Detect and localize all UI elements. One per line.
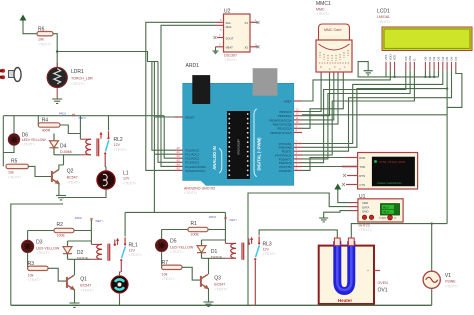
svg-text:D5: D5 xyxy=(445,56,449,60)
svg-text:OVEN: OVEN xyxy=(378,281,389,285)
svg-text:BC547: BC547 xyxy=(214,283,225,287)
svg-text:AREF: AREF xyxy=(284,100,292,104)
svg-text:TURN: TURN xyxy=(379,216,386,220)
microcontroller ATMEGA328P xyxy=(227,111,250,179)
svg-text:<TEXT>: <TEXT> xyxy=(129,253,142,257)
svg-text:Q2: Q2 xyxy=(67,169,74,175)
svg-text:ANALOG IN: ANALOG IN xyxy=(212,146,217,170)
svg-text:D5: D5 xyxy=(170,239,177,245)
svg-text:MMC Card: MMC Card xyxy=(324,28,341,32)
wire emitter RL1 driver xyxy=(74,289,76,303)
svg-text:PB0/ICP1/CLKO: PB0/ICP1/CLKO xyxy=(270,131,292,135)
wire MMC CS to PB4 xyxy=(329,72,331,75)
wire power to R6 xyxy=(23,22,37,34)
relay contact RL1 xyxy=(124,237,126,244)
svg-text:400R: 400R xyxy=(42,129,51,133)
relay contact RL3 xyxy=(258,236,260,243)
wire U1 DATA xyxy=(248,193,349,305)
svg-text:PAD2: PAD2 xyxy=(75,216,83,220)
wire LCD VEE xyxy=(394,70,396,77)
resistor R2 xyxy=(54,228,74,232)
svg-text:+: + xyxy=(367,269,369,273)
svg-text:PC5/ADC5/SCL: PC5/ADC5/SCL xyxy=(185,169,206,173)
wire emitter RL3 driver xyxy=(208,288,210,302)
svg-text:LED-YELLOW: LED-YELLOW xyxy=(36,247,60,251)
resistor R3 xyxy=(27,253,29,269)
wire 12V feed row xyxy=(125,211,225,213)
power +5V near U1 xyxy=(335,185,340,192)
resistor R6 xyxy=(37,32,53,36)
Arduino USB connector xyxy=(192,75,210,104)
svg-text:LM016L: LM016L xyxy=(377,15,390,19)
svg-text:A2: A2 xyxy=(177,154,181,158)
net label RL3 driver xyxy=(224,212,226,229)
diode D4 xyxy=(50,134,59,156)
svg-text:A5: A5 xyxy=(177,166,181,170)
wire rail RL1 driver xyxy=(28,230,54,232)
svg-text:<TEXT>: <TEXT> xyxy=(38,43,51,47)
svg-text:SDA: SDA xyxy=(226,25,232,29)
svg-text:100E: 100E xyxy=(191,233,200,237)
svg-text:Q3: Q3 xyxy=(214,275,221,281)
wire coil bottom RL1 driver xyxy=(68,258,92,260)
LDR LDR1 xyxy=(56,85,58,99)
svg-text:12V: 12V xyxy=(123,177,130,181)
wire U1 VDD xyxy=(338,191,349,203)
svg-text:D-0066: D-0066 xyxy=(60,150,72,154)
wire MMC DI to PB3 xyxy=(333,72,335,75)
wire base RL1 driver xyxy=(48,268,67,281)
svg-text:<TEXT>: <TEXT> xyxy=(67,181,80,185)
ground RL3 driver xyxy=(204,302,214,306)
svg-text:<TEXT>: <TEXT> xyxy=(123,182,136,186)
transistor Q3 xyxy=(201,274,208,288)
source V1 VSINE xyxy=(431,224,433,272)
wire MMC pin1 to PB5 xyxy=(320,72,322,75)
svg-text:<NET>: <NET> xyxy=(78,116,87,120)
svg-text:X1: X1 xyxy=(244,21,248,25)
svg-text:OV1: OV1 xyxy=(378,288,388,294)
wire base RL3 driver xyxy=(182,267,201,280)
svg-text:A3: A3 xyxy=(177,158,181,162)
svg-text:<TEXT>: <TEXT> xyxy=(170,250,183,254)
svg-text:RESET: RESET xyxy=(185,116,195,120)
svg-text:D4: D4 xyxy=(60,143,67,149)
svg-text:E: E xyxy=(412,59,416,61)
Arduino digital brace xyxy=(254,109,257,177)
wire Q2 collector xyxy=(59,165,64,170)
wire MMC DO to PB1 xyxy=(342,72,344,75)
svg-text:<TEXT>: <TEXT> xyxy=(214,288,227,292)
svg-text:PAD1: PAD1 xyxy=(59,112,67,116)
svg-text:DS1307: DS1307 xyxy=(224,54,237,58)
svg-text:<NET>: <NET> xyxy=(228,218,237,222)
svg-text:D7: D7 xyxy=(454,56,458,60)
relay coil RL3 driver xyxy=(224,240,226,243)
svg-text:LDR1: LDR1 xyxy=(71,69,84,75)
svg-text:<TEXT>: <TEXT> xyxy=(445,285,458,289)
svg-text:R5: R5 xyxy=(11,158,18,164)
wire coil bottom RL3 driver xyxy=(202,257,226,259)
transistor Q2 xyxy=(52,170,59,184)
wire PB4 long row xyxy=(302,114,447,116)
svg-text:V1: V1 xyxy=(445,273,451,279)
svg-text:LED-YELLOW: LED-YELLOW xyxy=(170,246,194,250)
svg-text:MMC1: MMC1 xyxy=(316,1,331,7)
svg-text:100E: 100E xyxy=(57,234,66,238)
oven OV1 heater xyxy=(319,246,374,304)
svg-text:36.0: 36.0 xyxy=(383,210,389,214)
wire LCD D5 branch to V1 rail xyxy=(446,89,448,224)
wire LCD D5 xyxy=(302,70,447,147)
svg-text:R1: R1 xyxy=(191,221,198,227)
wire R6 to LDR node xyxy=(53,34,57,68)
relay contact RL2 xyxy=(108,116,110,131)
relay coil RL2 xyxy=(79,116,81,140)
svg-text:10k: 10k xyxy=(38,38,44,42)
ground RL1 driver xyxy=(70,303,80,307)
ground LCD VSS xyxy=(358,62,386,77)
LED D5 xyxy=(161,230,163,240)
svg-text:SOUT: SOUT xyxy=(226,37,234,41)
svg-text:BC547: BC547 xyxy=(80,284,91,288)
svg-text:A4: A4 xyxy=(177,162,181,166)
wire LCD VDD xyxy=(302,70,390,101)
svg-text:R7: R7 xyxy=(162,260,169,266)
wire U2 SDA to A4 xyxy=(161,25,216,166)
resistor R5 xyxy=(3,145,14,152)
svg-text:Heater: Heater xyxy=(338,298,353,303)
wire node to A0 xyxy=(57,52,174,151)
svg-text:R6: R6 xyxy=(38,27,45,33)
svg-text:U2: U2 xyxy=(224,9,231,15)
svg-text:<TEXT>: <TEXT> xyxy=(184,191,197,195)
svg-text:D3: D3 xyxy=(36,240,43,246)
svg-text:A0: A0 xyxy=(177,146,181,150)
wire LCD RW xyxy=(302,70,410,159)
svg-text:TORCH_LDR: TORCH_LDR xyxy=(71,77,93,81)
terminal pin stubs xyxy=(345,157,358,159)
svg-text:D2: D2 xyxy=(432,56,436,60)
svg-text:<TEXT>: <TEXT> xyxy=(71,82,84,86)
svg-text:VEE: VEE xyxy=(393,55,397,61)
transistor Q1 xyxy=(67,275,74,289)
wire LCD D0-D3 ground tie xyxy=(386,76,439,78)
power +5V P1 xyxy=(20,16,25,23)
wire U2 SCL to A5 xyxy=(146,22,216,170)
svg-text:<TEXT>: <TEXT> xyxy=(263,252,276,256)
svg-text:<TEXT>: <TEXT> xyxy=(114,148,127,152)
wire V1 bottom to bus xyxy=(431,288,433,305)
svg-text:RTS: RTS xyxy=(359,174,365,178)
wire RXD from PD0 xyxy=(302,158,345,171)
svg-text:Custom Colors/Fonts: Custom Colors/Fonts xyxy=(377,181,402,185)
resistor R1 xyxy=(188,227,208,231)
wire RESET xyxy=(154,116,174,118)
svg-text:<TEXT>: <TEXT> xyxy=(377,20,390,24)
svg-text:VT52, VT100, ANSI: VT52, VT100, ANSI xyxy=(379,160,405,164)
svg-text:<TEXT>: <TEXT> xyxy=(316,12,329,16)
svg-text:X2: X2 xyxy=(244,46,248,50)
wire PAD1 rail to A2 xyxy=(164,116,174,159)
net label RL1 driver xyxy=(90,220,92,231)
svg-text:<TEXT>: <TEXT> xyxy=(359,228,372,232)
wire LCD E xyxy=(302,70,414,155)
wire lamp return xyxy=(63,189,107,198)
wire coil bottom RL2 xyxy=(54,154,80,156)
svg-text:12V: 12V xyxy=(114,143,121,147)
wire emitter Q2 xyxy=(58,184,60,196)
svg-text:<NET>: <NET> xyxy=(94,219,103,223)
IC U2 DS1307 xyxy=(224,14,251,52)
svg-text:DIGITAL (~PWM): DIGITAL (~PWM) xyxy=(257,137,262,171)
wire TXD from PD1 xyxy=(302,166,342,168)
svg-text:BC547: BC547 xyxy=(67,176,78,180)
svg-text:ARD1: ARD1 xyxy=(186,63,200,69)
LCD pins xyxy=(385,62,387,71)
wire heater left to RL3 xyxy=(259,230,337,238)
wire rail left drop xyxy=(2,116,4,167)
svg-text:12V: 12V xyxy=(263,248,270,252)
wire heater right to V1 rail xyxy=(351,224,447,238)
svg-text:80.0: 80.0 xyxy=(383,205,389,209)
wire rail RL3 driver xyxy=(162,229,188,231)
svg-text:12V: 12V xyxy=(129,249,136,253)
wire U1 GND xyxy=(324,211,349,218)
svg-text:R3: R3 xyxy=(28,261,35,267)
ground below LDR1 xyxy=(52,99,62,103)
speaker LS1 xyxy=(0,68,21,82)
svg-text:PAD3: PAD3 xyxy=(209,215,217,219)
wire RL3 to bus xyxy=(254,260,256,305)
svg-text:10k: 10k xyxy=(162,273,168,277)
wire motor to bus xyxy=(119,293,121,300)
svg-text:D2: D2 xyxy=(77,250,84,256)
svg-text:VSINE: VSINE xyxy=(445,280,456,284)
svg-text:R2: R2 xyxy=(57,222,64,228)
svg-text:<TEXT>: <TEXT> xyxy=(80,289,93,293)
svg-text:<TEXT>: <TEXT> xyxy=(224,58,237,62)
svg-text:MMC: MMC xyxy=(316,8,325,12)
wire rail PAD1 xyxy=(3,115,164,117)
U1 pin stubs xyxy=(349,202,358,204)
Arduino analog brace xyxy=(219,149,222,174)
ground U1 xyxy=(319,218,328,222)
LED D3 xyxy=(27,231,29,241)
svg-text:ARDUINO UNO R3: ARDUINO UNO R3 xyxy=(184,187,215,191)
motor M1 xyxy=(120,261,122,271)
wire LCD D4 xyxy=(302,70,443,143)
ground Q2 xyxy=(56,196,66,200)
diode D2 xyxy=(68,231,92,242)
virtual terminal VT1 xyxy=(358,153,418,190)
wire bottom bus xyxy=(11,304,432,306)
svg-text:R4: R4 xyxy=(42,118,49,124)
wire A3 link xyxy=(158,62,175,163)
svg-text:VBAT: VBAT xyxy=(226,46,234,50)
lamp L1 xyxy=(104,155,106,167)
svg-text:A1: A1 xyxy=(177,150,181,154)
svg-text:D1: D1 xyxy=(211,249,218,255)
svg-text:LCD1: LCD1 xyxy=(377,9,390,15)
svg-text:<TEXT>: <TEXT> xyxy=(8,176,21,180)
wire bundle to feed row xyxy=(152,61,158,63)
resistor R4 xyxy=(37,116,39,125)
diode D1 xyxy=(202,230,226,241)
svg-text:RXD: RXD xyxy=(359,156,365,160)
wire LCD D6 xyxy=(302,70,452,151)
svg-text:D0: D0 xyxy=(423,56,427,60)
wire bundle v A1 xyxy=(154,153,174,155)
wire U2 VBAT down xyxy=(215,47,217,51)
resistor R7 xyxy=(161,252,163,268)
svg-text:PD0/RXD: PD0/RXD xyxy=(279,169,292,173)
Arduino power jack xyxy=(253,68,278,96)
svg-text:<TEXT>: <TEXT> xyxy=(22,143,35,147)
relay coil RL1 driver xyxy=(90,241,92,244)
svg-text:<TEXT>: <TEXT> xyxy=(28,278,41,282)
wire R4 to node xyxy=(60,125,80,134)
svg-text:10k: 10k xyxy=(8,171,14,175)
wire MMC CLK to PB2 xyxy=(337,72,339,75)
svg-text:<TEXT>: <TEXT> xyxy=(162,277,175,281)
svg-text:LED+YELLOW: LED+YELLOW xyxy=(22,138,47,142)
svg-text:GND: GND xyxy=(362,209,368,213)
wire RL1 top xyxy=(124,212,126,236)
wire LCD D7 xyxy=(447,70,462,107)
LED D6 xyxy=(13,116,15,134)
svg-text:Q1: Q1 xyxy=(80,276,87,282)
svg-text:CTS: CTS xyxy=(359,183,365,187)
wire ground link to left bus xyxy=(11,203,63,305)
wire LCD RS xyxy=(302,70,406,162)
pin stubs U2 xyxy=(216,21,224,23)
svg-text:TXD: TXD xyxy=(359,165,365,169)
wire base Q2 xyxy=(28,166,52,176)
svg-text:<TEXT>: <TEXT> xyxy=(36,251,49,255)
svg-text:10k: 10k xyxy=(28,274,34,278)
svg-text:ATMEGA328P: ATMEGA328P xyxy=(238,139,241,155)
